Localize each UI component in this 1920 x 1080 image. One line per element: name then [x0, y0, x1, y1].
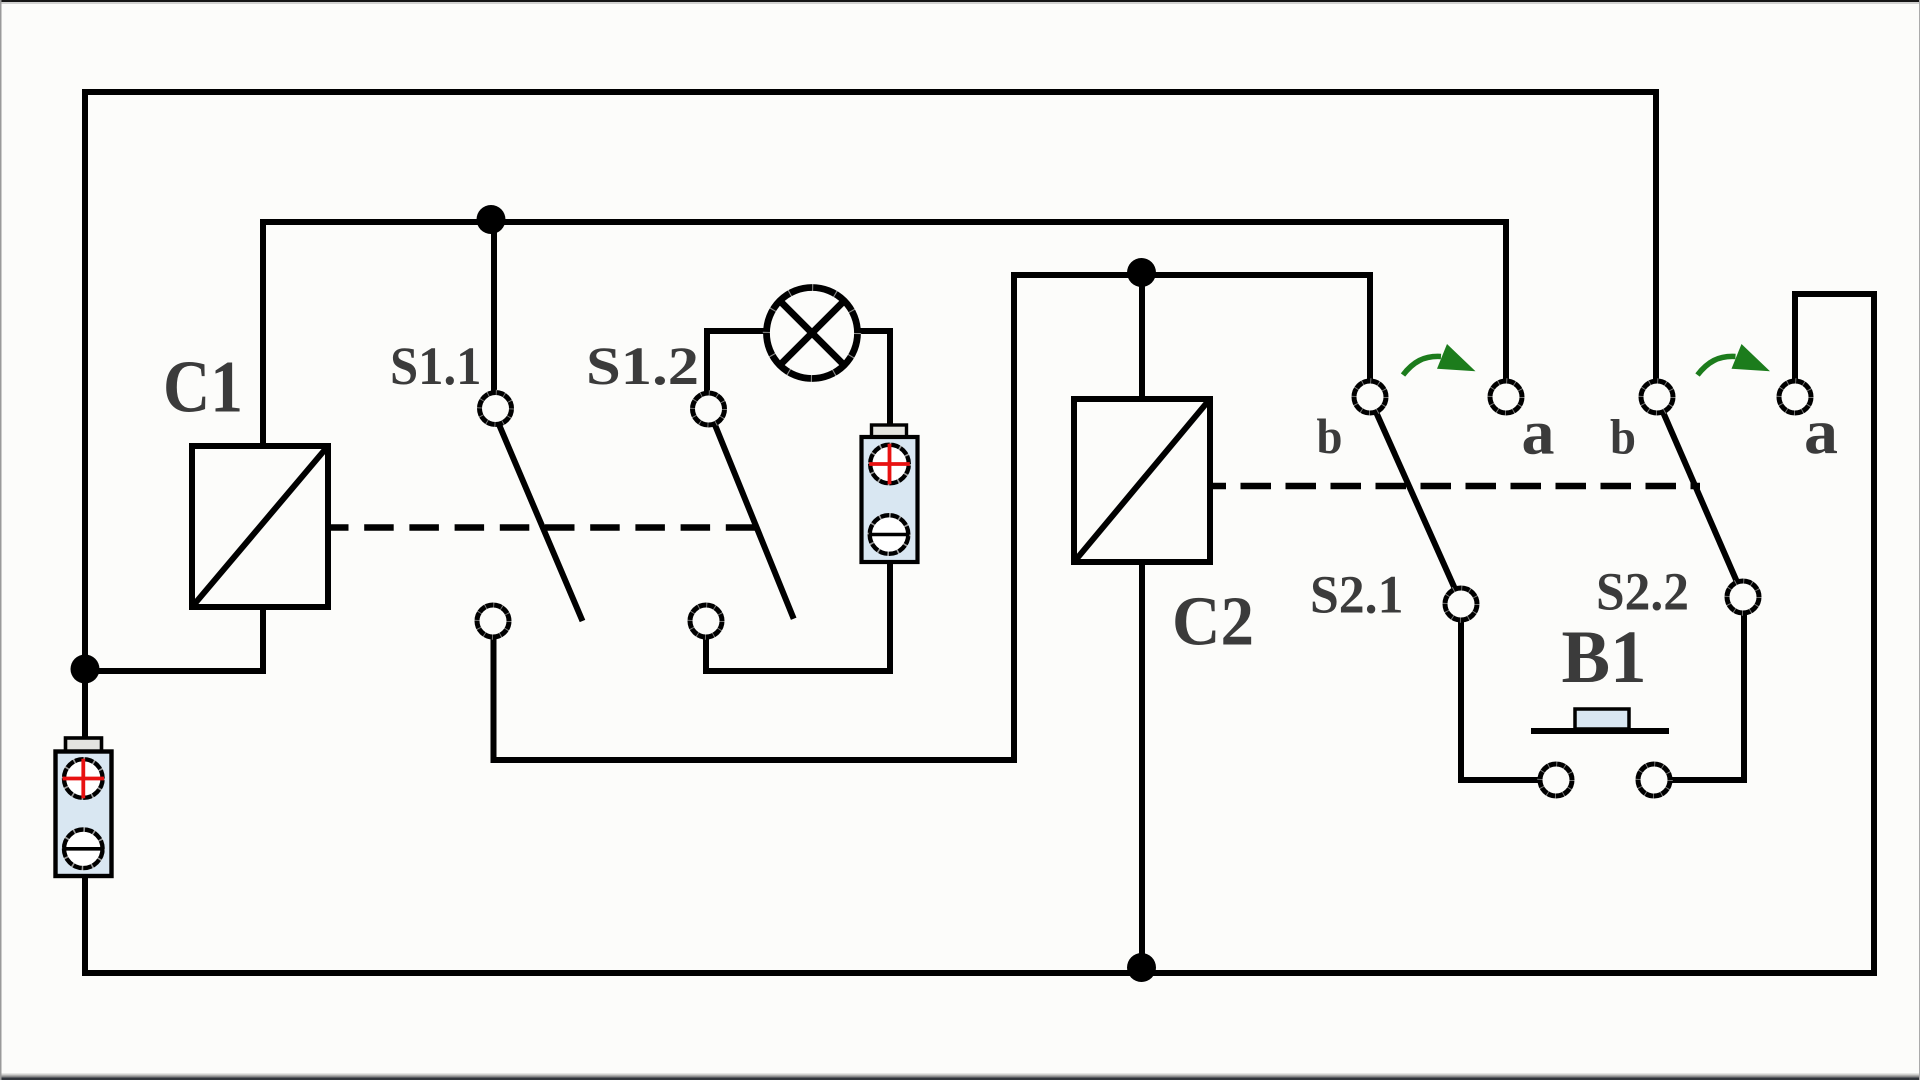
svg-text:S1.1: S1.1	[390, 336, 482, 396]
svg-text:C2: C2	[1172, 584, 1254, 661]
svg-text:b: b	[1610, 409, 1636, 465]
svg-text:B1: B1	[1562, 616, 1647, 699]
svg-text:S1.2: S1.2	[586, 336, 699, 396]
svg-text:a: a	[1804, 397, 1838, 467]
svg-text:S2.2: S2.2	[1596, 562, 1689, 622]
svg-text:C1: C1	[163, 347, 243, 429]
svg-text:S2.1: S2.1	[1310, 565, 1404, 625]
svg-text:b: b	[1317, 408, 1343, 464]
svg-text:a: a	[1522, 398, 1555, 468]
